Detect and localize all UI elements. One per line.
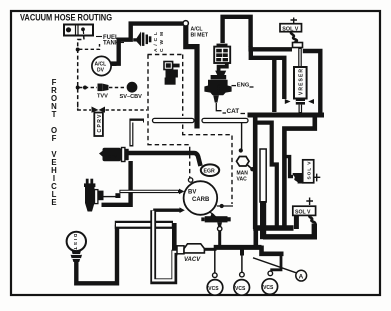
solenoid SOL V (right middle) (284, 157, 320, 184)
wire (dashed) from connector box down (78, 36, 84, 111)
svg-text:SV–CBV: SV–CBV (120, 94, 143, 100)
svg-text:ACV: ACV (216, 83, 222, 94)
hollow tube riser (260, 149, 266, 239)
svg-text:BCV: BCV (106, 154, 118, 160)
svg-text:A: A (299, 273, 304, 280)
svg-text:VACV: VACV (184, 257, 201, 263)
wire (dashed) to FUEL TANK (79, 44, 100, 49)
node: junction dot TVV branch (76, 86, 80, 90)
carburetor BV CARB (184, 181, 218, 215)
hose bar C (thick) + VCS3 drop (262, 246, 284, 276)
wire VACV right to junction (204, 248, 216, 251)
valve A/CL DV (92, 56, 117, 75)
svg-text:T: T (52, 110, 57, 119)
svg-text:VCS: VCS (235, 286, 246, 292)
wire VCKV to carb hose (104, 193, 121, 198)
wire MAN VAC stem (239, 123, 243, 153)
svg-text:VACUUM HOSE ROUTING: VACUUM HOSE ROUTING (20, 12, 112, 23)
node A (circle) (296, 270, 307, 281)
hose bus right loop down to SOL V 1 and bar A (257, 117, 315, 226)
svg-text:CAT: CAT (227, 108, 240, 115)
hose BCV down + corner (thick) (102, 161, 131, 205)
valve ACV (204, 63, 231, 111)
svg-text:BI MET: BI MET (191, 33, 209, 39)
solenoid SOL V (top) (280, 18, 303, 48)
valve SV-CBV (120, 82, 143, 100)
hose solenoid port bar (thick) (251, 47, 321, 114)
sensor A/CL CWM (horn) (133, 32, 165, 53)
valve TVV (97, 84, 109, 100)
hose main riser (thick vertical center) (253, 115, 258, 229)
connector box (two-cell) (64, 25, 93, 36)
hose corner bar A to bar B (254, 228, 259, 247)
wire (dashed) TVV to SV-CBV (109, 87, 126, 89)
solenoid vacuum switch VCS 1 (207, 280, 223, 296)
wire VCS1 drop (213, 249, 218, 278)
node: junction dot fuel tank branch (76, 48, 80, 52)
svg-text:SOL V: SOL V (295, 209, 311, 215)
svg-text:BV: BV (188, 190, 196, 196)
solenoid vacuum switch VCS 3 (262, 279, 278, 295)
svg-text:VCS: VCS (208, 286, 219, 292)
wire (dashed) CPRV to engine box (106, 109, 148, 111)
wire (dashed) to TVV / SV-CBV (79, 87, 97, 89)
hose (outlined) to carburetor port 2 with arrow + down loop (153, 207, 185, 281)
svg-text:VRESER: VRESER (298, 69, 304, 95)
svg-text:PCV: PCV (168, 70, 173, 80)
svg-text:CPRV: CPRV (97, 114, 103, 133)
hose bar A lower (thick) with right upturn to SOL V 2 squiggle (263, 224, 314, 237)
engine dashed box around PCV (148, 55, 184, 145)
valve EGR (201, 164, 219, 176)
svg-text:VAC: VAC (237, 176, 248, 182)
hose bar B (thick) (214, 245, 262, 250)
hose manifold bus (thick horizontal) (248, 113, 325, 118)
solenoid SOL V (lower right) (293, 198, 316, 224)
svg-text:CWM: CWM (159, 32, 165, 52)
valve VACV (177, 244, 204, 263)
hose DIST to VACV (thick) (76, 223, 177, 283)
wire (dashed) down-left corner to CPRV (78, 104, 91, 110)
wire carb right to dashed envelope (217, 204, 233, 208)
hose A/CL DV to bimetal node (thick) (116, 24, 183, 64)
svg-text:DV: DV (97, 68, 105, 74)
svg-text:TVV: TVV (97, 94, 108, 100)
svg-text:VCKV: VCKV (88, 193, 93, 205)
svg-text:VCS: VCS (263, 285, 274, 291)
valve PCV (164, 62, 180, 85)
solenoid vacuum switch VCS 2 (234, 280, 250, 296)
reservoir VRESER (285, 48, 314, 114)
valve BCV (99, 148, 129, 162)
svg-text:CARB: CARB (192, 197, 210, 203)
svg-text:DIST: DIST (72, 234, 78, 250)
hose (outlined) to carburetor port 1 with arrow (119, 189, 184, 195)
svg-text:A/CL: A/CL (153, 32, 159, 52)
svg-text:EGR: EGR (204, 169, 215, 175)
node A/CL BI MET (open circle) (183, 21, 209, 39)
valve CPRV (bowtie top + canister) (92, 107, 106, 137)
FRONT OF VEHICLE vertical text (51, 78, 57, 207)
node: carb top connector (188, 178, 192, 182)
valve VCKV (84, 179, 104, 212)
title VACUUM HOSE ROUTING (20, 12, 112, 23)
svg-text:SOL V: SOL V (306, 161, 312, 180)
label ENG (232, 82, 254, 88)
wire VCS2 drop (240, 249, 245, 277)
port MAN VAC (237, 157, 255, 183)
svg-text:ENG: ENG (237, 82, 250, 88)
distributor DIST (67, 232, 86, 262)
hose BCV to EGR (thick) (128, 153, 201, 166)
svg-text:E: E (51, 198, 56, 207)
throttle modulator VOTM (201, 212, 230, 248)
label CAT (223, 108, 246, 115)
valve AIR BPV (214, 44, 230, 63)
svg-text:F: F (52, 134, 57, 143)
FUEL TANK label (96, 35, 124, 47)
wire callout to node A (253, 258, 296, 273)
hose bar A upper (thick) into SOL V 2 bottom-left (253, 225, 293, 230)
hose from node down to engine (thick) (186, 25, 197, 129)
hose (outlined capsule) BCV to right riser (131, 118, 248, 146)
hose to AIR BPV (thick) (223, 17, 251, 47)
engine dashed envelope (right side) (148, 133, 232, 204)
